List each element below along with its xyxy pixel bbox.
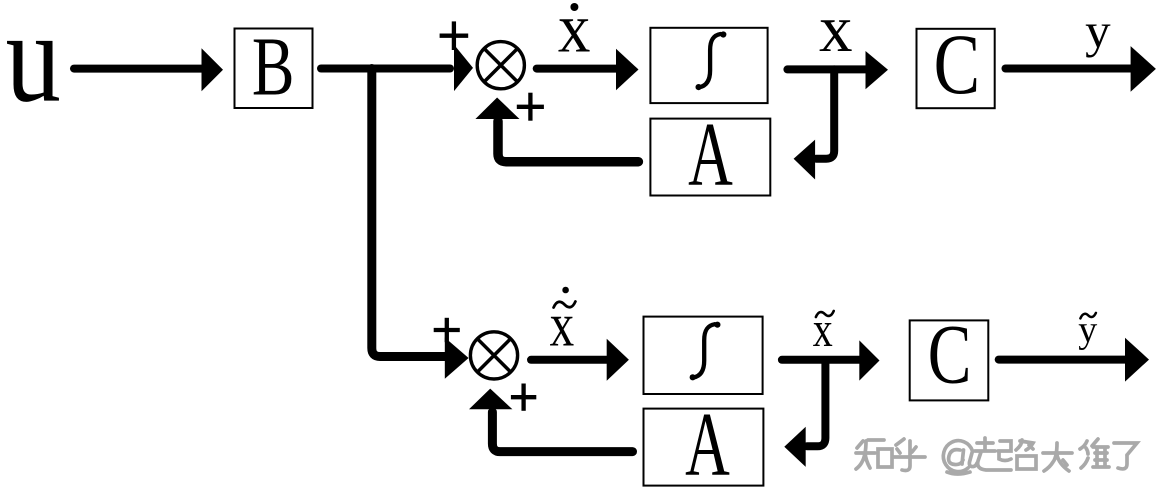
arrowhead into B [202,48,224,91]
svg-text:B: B [252,21,295,113]
svg-text:x: x [813,302,833,357]
wire C2 to output y-tilde [999,356,1126,364]
svg-text:x: x [558,0,591,67]
arrowhead into S2 [445,338,469,379]
svg-text:x: x [819,0,853,66]
wire branch x down to A1 [816,69,834,158]
label x-tilde-dot [550,287,576,360]
svg-text:y: y [1085,3,1110,58]
plus sign at S2 input [434,318,460,342]
output arrowhead y [1131,46,1156,92]
wire A1 feedback to S1 [498,121,638,162]
label x-tilde [813,302,834,357]
wire branch x-tilde down to A2 [807,360,825,446]
watermark [856,438,1137,474]
integrator I1 [650,28,767,103]
svg-text:A: A [685,395,730,496]
wire I1 to C1 [787,65,866,73]
svg-text:A: A [688,104,733,205]
svg-text:u: u [6,0,61,130]
wire I2 to C2 [782,356,860,364]
arrowhead into I2 [607,339,629,381]
wire C1 to output y [1006,65,1132,73]
arrowhead into C2 [859,340,879,380]
integrator I2 [644,317,763,394]
plus sign at S1 feedback [517,93,544,121]
wire S1 to integrator I1 [537,65,617,73]
block B [235,21,313,113]
label y-tilde [1078,309,1097,351]
plus sign at S2 feedback [511,384,536,411]
summing junction S1 [477,42,524,89]
svg-text:x: x [550,291,575,360]
wire B to summing junction S1 [321,65,450,73]
arrowhead into S1 [454,45,473,92]
wire u to B [74,65,202,73]
svg-text:y: y [1078,309,1097,351]
arrowhead into C1 [866,51,889,89]
svg-text:C: C [934,16,980,112]
summing junction S2 [470,332,517,379]
wire branch from node down to summing junction S2 [372,69,446,357]
block A2 [644,395,764,496]
label x-dot [558,0,591,67]
block C2 [910,307,989,401]
arrowhead into I1 [616,49,639,91]
wire S2 to integrator I2 [531,356,608,364]
block A1 [650,104,770,205]
block C1 [917,16,995,112]
arrowhead into A1 [794,140,816,180]
svg-text:C: C [928,307,972,401]
output arrowhead y-tilde [1125,338,1149,382]
arrowhead up into S2 [469,389,512,410]
arrowhead up into S1 [475,98,519,120]
plus sign at S1 input [440,21,469,50]
wire A2 feedback to S2 [492,412,632,452]
arrowhead into A2 [784,427,805,467]
